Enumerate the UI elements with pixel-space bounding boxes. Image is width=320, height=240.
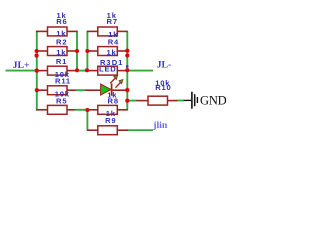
svg-text:R9: R9 xyxy=(105,116,116,125)
svg-text:LED: LED xyxy=(99,65,117,74)
svg-text:JL-: JL- xyxy=(157,59,172,70)
svg-text:R1: R1 xyxy=(56,57,67,66)
svg-text:R4: R4 xyxy=(108,37,119,46)
svg-text:1k: 1k xyxy=(56,29,66,38)
svg-text:R10: R10 xyxy=(155,83,171,92)
svg-text:GND: GND xyxy=(200,94,227,108)
svg-text:R7: R7 xyxy=(107,17,118,26)
svg-text:R8: R8 xyxy=(108,96,119,105)
svg-text:jlin: jlin xyxy=(152,120,168,131)
svg-text:R6: R6 xyxy=(56,17,67,26)
svg-text:JL+: JL+ xyxy=(13,60,30,71)
svg-text:R11: R11 xyxy=(55,77,71,86)
svg-text:1k: 1k xyxy=(56,48,66,57)
svg-text:R2: R2 xyxy=(56,38,67,47)
svg-text:R5: R5 xyxy=(56,97,67,106)
svg-text:1k: 1k xyxy=(106,48,116,57)
